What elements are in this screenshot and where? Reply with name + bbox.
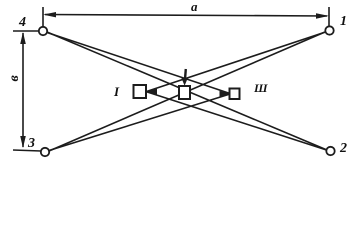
svg-text:1: 1 — [340, 14, 347, 29]
svg-text:a: a — [191, 0, 198, 14]
svg-text:I: I — [113, 84, 120, 99]
svg-text:в: в — [7, 75, 22, 82]
svg-text:Ш: Ш — [253, 81, 268, 95]
svg-text:3: 3 — [27, 136, 35, 151]
svg-text:2: 2 — [339, 141, 347, 156]
svg-text:4: 4 — [18, 15, 26, 30]
